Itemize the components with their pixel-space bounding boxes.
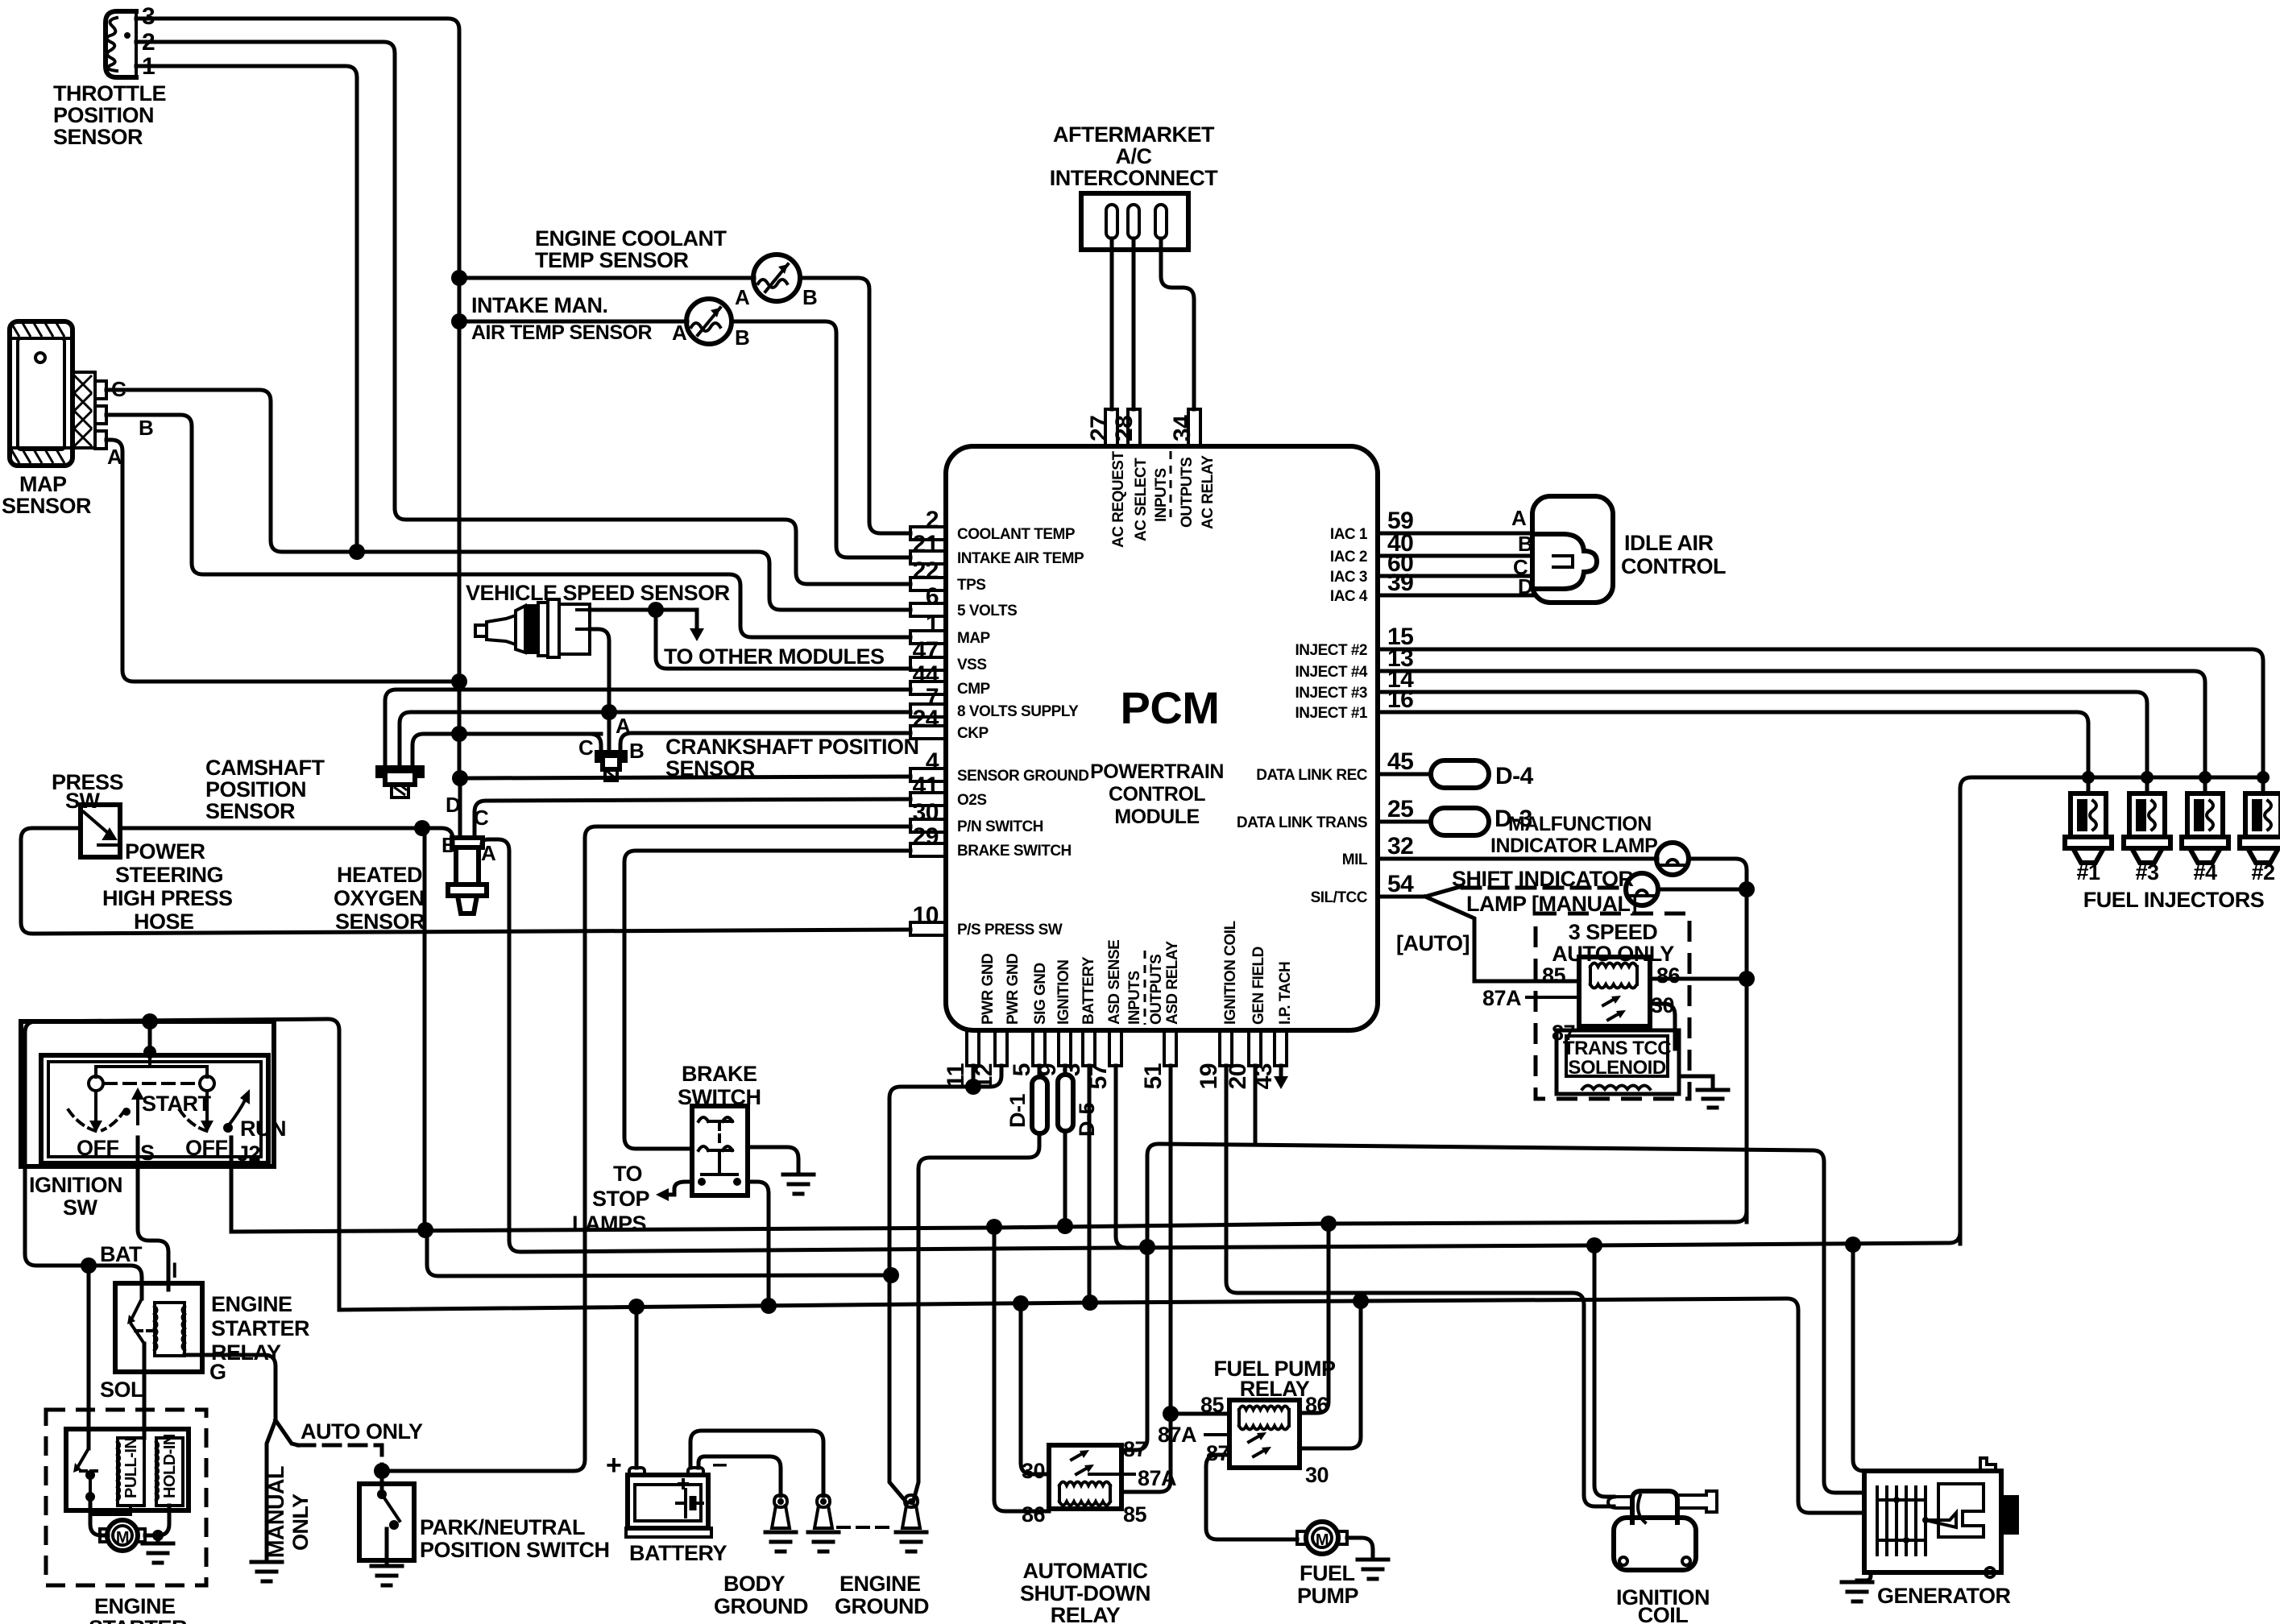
node ASD out to ignition coil xyxy=(1586,1237,1602,1253)
wire relay G to auto/manual fork xyxy=(184,1355,276,1562)
svg-text:GROUND: GROUND xyxy=(835,1594,929,1618)
wire TPS pin2 down xyxy=(136,42,910,584)
pull-in coil xyxy=(118,1438,144,1506)
node starter ground xyxy=(152,1530,164,1541)
wire brake switch to ground xyxy=(748,1147,798,1174)
svg-text:OFF: OFF xyxy=(185,1136,228,1160)
dashed link between engine grounds xyxy=(838,1526,893,1529)
PCM bottom pin 11 stub (PWR GND) xyxy=(967,1030,979,1066)
svg-text:GEN FIELD: GEN FIELD xyxy=(1250,947,1267,1025)
svg-text:S: S xyxy=(140,1141,155,1165)
engine ground bolt (PCM) xyxy=(905,1495,918,1507)
svg-text:87A: 87A xyxy=(1482,986,1521,1010)
crankshaft position sensor icon xyxy=(597,752,625,769)
svg-text:TO: TO xyxy=(613,1162,642,1186)
engine starter relay box xyxy=(115,1283,202,1372)
svg-text:IGNITION: IGNITION xyxy=(1055,960,1072,1025)
wire TPS pin3 to sensor-ground vertical xyxy=(136,19,459,278)
press switch box xyxy=(81,805,120,857)
PCM left pin 10 stub (P/S PRESS SW) xyxy=(910,922,946,935)
MAP sensor body xyxy=(10,321,73,466)
node pwr gnd join xyxy=(965,1079,981,1095)
fuel injector #2 xyxy=(2257,771,2270,784)
node RUN pin 9 xyxy=(1057,1218,1073,1234)
wire relay arm to pull-in coil xyxy=(143,1344,147,1438)
svg-text:–: – xyxy=(712,1448,727,1479)
PCM left pin 1 stub (MAP) xyxy=(910,631,946,644)
svg-text:POWERTRAIN: POWERTRAIN xyxy=(1090,760,1224,783)
MAP terminal A stub xyxy=(95,431,106,449)
ASD relay contact xyxy=(1072,1453,1088,1474)
wire TPS pin1 down xyxy=(136,66,357,552)
svg-text:INTAKE MAN.: INTAKE MAN. xyxy=(471,293,608,317)
svg-text:MAP: MAP xyxy=(957,630,991,647)
wire PCM 13 to injector #4 xyxy=(1378,671,2205,777)
svg-text:A: A xyxy=(672,321,687,345)
svg-text:#2: #2 xyxy=(2251,860,2274,884)
svg-text:PWR GND: PWR GND xyxy=(980,954,997,1025)
svg-text:OXYGEN: OXYGEN xyxy=(334,886,425,910)
ground park/neutral xyxy=(371,1566,402,1585)
svg-text:FUEL: FUEL xyxy=(1300,1561,1355,1585)
wire IAT B to PCM pin 21 xyxy=(732,321,910,557)
wire HO2S A heater to ASD output line xyxy=(482,839,1116,1252)
wire ASD relay pin 51 to relay coils xyxy=(1121,1066,1171,1492)
wire CMP ground to sensor ground xyxy=(412,734,601,768)
svg-text:INJECT #3: INJECT #3 xyxy=(1295,685,1367,702)
svg-text:87A: 87A xyxy=(1158,1423,1196,1447)
wire MAP A to sensor ground xyxy=(106,440,460,681)
PCM left pin 30 stub (P/N SWITCH) xyxy=(910,819,946,832)
trans TCC solenoid xyxy=(1557,1030,1679,1094)
wire run feed vertical to ignition J2 xyxy=(423,828,427,1228)
wire CKP C to sensor ground xyxy=(590,734,601,752)
MAP terminal C stub xyxy=(95,381,106,399)
svg-text:11: 11 xyxy=(943,1063,969,1088)
generator internals diode bars xyxy=(1877,1487,1926,1555)
left OFF arrow xyxy=(94,1091,97,1121)
svg-text:SIL/TCC: SIL/TCC xyxy=(1311,889,1368,906)
FP relay contact xyxy=(1249,1435,1265,1456)
wire sensor ground to ECT sensor A xyxy=(459,276,754,280)
svg-text:AC REQUEST: AC REQUEST xyxy=(1110,451,1127,548)
svg-text:HIGH PRESS: HIGH PRESS xyxy=(102,886,233,910)
ground generator xyxy=(1842,1582,1872,1601)
wire CMP to PCM pin 7 (8 volts supply) xyxy=(400,712,910,768)
svg-text:28: 28 xyxy=(1111,416,1138,441)
wire ASD sense pin 57 to ASD output xyxy=(1116,1066,1127,1248)
svg-text:51: 51 xyxy=(1140,1063,1167,1089)
wire 86 to lamp feed xyxy=(1650,977,1747,981)
svg-text:CKP: CKP xyxy=(957,725,989,742)
data link D-4 connector pill xyxy=(1378,773,1431,777)
svg-text:OFF: OFF xyxy=(77,1136,119,1160)
svg-text:OUTPUTS: OUTPUTS xyxy=(1179,458,1196,528)
svg-text:ASD RELAY: ASD RELAY xyxy=(1164,941,1181,1025)
generator internal regulator shape xyxy=(1938,1484,1984,1537)
PCM bottom pin 20 stub (GEN FIELD) xyxy=(1249,1030,1261,1066)
ground fuel pump xyxy=(1358,1560,1388,1579)
node ignition switch feed xyxy=(142,1013,158,1029)
wire PCM 40 to IAC B xyxy=(1378,554,1532,558)
wire RUN/ignition line from J2 xyxy=(231,1211,1747,1232)
svg-text:BATTERY: BATTERY xyxy=(629,1541,727,1565)
svg-text:TEMP SENSOR: TEMP SENSOR xyxy=(535,248,689,272)
ground TCC solenoid xyxy=(1698,1090,1728,1108)
PCM left pin 7 stub (8 VOLTS SUPPLY) xyxy=(910,704,946,717)
park/neutral switch blade xyxy=(380,1471,384,1492)
svg-text:INJECT #2: INJECT #2 xyxy=(1295,642,1367,659)
svg-text:5: 5 xyxy=(1009,1063,1035,1076)
wire battery plus up to bus xyxy=(635,1305,639,1468)
node RUN to fuel pump relay 86 xyxy=(1320,1216,1337,1232)
diagnostic connector D-1 xyxy=(1038,1066,1042,1077)
wire shift lamp to feed vertical xyxy=(1658,888,1747,892)
brake switch upper contacts xyxy=(699,1117,732,1121)
wire sensor ground to PCM pin 4 xyxy=(459,777,910,778)
wire brake switch to battery bus xyxy=(748,1182,769,1306)
wire MAP C joins TPS1 then to PCM pin 6 (5 volts) xyxy=(106,390,910,610)
svg-text:10: 10 xyxy=(913,902,939,929)
wire injector supply bus from ASD output xyxy=(1960,777,2263,1244)
svg-text:BATTERY: BATTERY xyxy=(1080,956,1097,1025)
PCM left pin 6 stub (5 VOLTS) xyxy=(910,603,946,616)
svg-text:STARTER: STARTER xyxy=(89,1616,187,1624)
svg-text:AUTO ONLY: AUTO ONLY xyxy=(301,1419,423,1444)
svg-text:INPUTS: INPUTS xyxy=(1126,971,1143,1025)
svg-text:COIL: COIL xyxy=(1638,1603,1689,1624)
svg-text:27: 27 xyxy=(1086,416,1113,441)
svg-text:47: 47 xyxy=(913,637,939,664)
wire A/C pin to PCM 34 xyxy=(1161,238,1194,409)
wire HO2S C to PCM pin 41 (O2S) xyxy=(475,799,910,838)
svg-text:41: 41 xyxy=(913,773,939,799)
node inner feed xyxy=(143,1046,156,1058)
svg-text:CONTROL: CONTROL xyxy=(1621,554,1726,578)
wire PCM 32 to MIL lamp xyxy=(1378,857,1657,861)
svg-text:GROUND: GROUND xyxy=(714,1594,808,1618)
engine ground bolt (battery) xyxy=(817,1495,830,1507)
wire PCM pin 29 to brake switch xyxy=(624,851,910,1149)
ignition sw contact left xyxy=(89,1076,103,1091)
svg-text:SW: SW xyxy=(65,789,101,813)
svg-text:INJECT #1: INJECT #1 xyxy=(1295,705,1368,722)
wire PCM 39 to IAC D xyxy=(1378,594,1532,598)
svg-text:OUTPUTS: OUTPUTS xyxy=(1148,955,1165,1025)
dashed wire shift indicator lamp (manual) xyxy=(1462,886,1626,890)
PCM top pin 34 stub (AC RELAY) xyxy=(1188,409,1200,446)
svg-text:30: 30 xyxy=(1022,1459,1045,1483)
svg-text:POSITION: POSITION xyxy=(53,103,154,127)
wire RUN to FP relay 86 xyxy=(1300,1224,1329,1413)
svg-text:19: 19 xyxy=(1196,1063,1222,1089)
svg-text:VSS: VSS xyxy=(957,657,987,673)
svg-text:M: M xyxy=(116,1529,129,1547)
svg-text:SOLENOID: SOLENOID xyxy=(1568,1057,1666,1079)
svg-text:STARTER: STARTER xyxy=(211,1316,309,1340)
svg-text:O2S: O2S xyxy=(957,792,987,809)
PCM bottom pin 12 stub (PWR GND) xyxy=(995,1030,1007,1066)
svg-text:INDICATOR LAMP: INDICATOR LAMP xyxy=(1490,835,1657,857)
svg-text:32: 32 xyxy=(1387,833,1413,860)
svg-text:6: 6 xyxy=(926,583,939,610)
PCM left pin 4 stub (SENSOR GROUND) xyxy=(910,768,946,781)
svg-text:SENSOR: SENSOR xyxy=(2,494,91,518)
wire to other modules arrow xyxy=(656,610,697,630)
svg-text:34: 34 xyxy=(1169,415,1196,441)
wire fuel pump to ground xyxy=(1347,1538,1373,1560)
shift indicator lamp xyxy=(1626,873,1658,905)
ignition sw contact right xyxy=(200,1076,214,1091)
wire CKP B to PCM pin 24 xyxy=(620,733,910,752)
svg-text:P/N SWITCH: P/N SWITCH xyxy=(957,818,1043,835)
svg-text:STOP: STOP xyxy=(592,1187,650,1211)
dashed link between contacts xyxy=(105,1082,198,1085)
wire J2 to RUN line xyxy=(230,1137,234,1228)
wire PCM 54 fork xyxy=(1378,886,1462,897)
svg-text:AUTO ONLY: AUTO ONLY xyxy=(1552,942,1674,966)
svg-text:+: + xyxy=(606,1450,621,1481)
svg-text:ENGINE: ENGINE xyxy=(94,1594,176,1618)
svg-text:START: START xyxy=(142,1092,211,1116)
svg-text:ENGINE COOLANT: ENGINE COOLANT xyxy=(535,226,728,251)
PCM left pin 41 stub (O2S) xyxy=(910,793,946,806)
park/neutral switch box xyxy=(359,1484,414,1560)
node MAP C / TPS1 junction xyxy=(349,544,365,560)
PCM bottom pin 5 stub (SIG GND) xyxy=(1033,1030,1045,1066)
svg-text:45: 45 xyxy=(1387,748,1413,775)
svg-text:PARK/NEUTRAL: PARK/NEUTRAL xyxy=(420,1515,585,1539)
svg-text:22: 22 xyxy=(913,557,939,584)
wire TCC solenoid to ground xyxy=(1679,1076,1713,1090)
svg-text:PUMP: PUMP xyxy=(1297,1584,1358,1608)
svg-text:HOSE: HOSE xyxy=(134,909,194,934)
wire ignition feed to ignition sw BAT xyxy=(25,1019,339,1310)
wire press sw loop to PCM pin 10 xyxy=(120,826,422,831)
wire BAT down to engine starter xyxy=(87,1266,91,1448)
node 86 feed junction xyxy=(1739,971,1755,987)
wire PCM 16 to injector #1 xyxy=(1378,712,2088,777)
svg-text:85: 85 xyxy=(1200,1393,1225,1417)
wire PCM pwr gnd pins 11+12 to engine ground xyxy=(889,1066,1001,1503)
node sensor ground pin4 junction xyxy=(452,770,468,786)
svg-text:INPUTS: INPUTS xyxy=(1153,468,1170,522)
wire VSS low terminal to CKP A via 8v line xyxy=(590,629,609,752)
starter relay arm xyxy=(131,1299,144,1344)
svg-text:BRAKE: BRAKE xyxy=(682,1062,757,1086)
svg-text:CMP: CMP xyxy=(957,681,991,698)
PCM left pin 47 stub (VSS) xyxy=(910,657,946,670)
svg-text:87: 87 xyxy=(1123,1437,1146,1461)
svg-text:HOLD-IN: HOLD-IN xyxy=(161,1434,179,1498)
PCM bottom pin 19 stub (IGNITION COIL) xyxy=(1220,1030,1232,1066)
wire ASD out down to generator xyxy=(1853,1245,1864,1471)
wire pin 19 to ignition coil negative xyxy=(1226,1066,1614,1506)
svg-text:IGNITION COIL: IGNITION COIL xyxy=(1222,921,1239,1025)
wire 30 down to solenoid xyxy=(1650,1004,1675,1049)
malfunction indicator lamp xyxy=(1656,843,1689,875)
svg-text:1: 1 xyxy=(926,611,939,637)
svg-text:4: 4 xyxy=(926,748,939,775)
idle air control connector xyxy=(1532,496,1613,603)
svg-text:SOL: SOL xyxy=(100,1377,143,1402)
svg-text:85: 85 xyxy=(1542,963,1566,988)
wire battery minus to engine ground xyxy=(690,1431,823,1496)
PCM bottom pin 43 stub (I.P. TACH) xyxy=(1275,1030,1287,1066)
PCM bottom pin 57 stub (ASD SENSE) xyxy=(1109,1030,1121,1066)
svg-text:MODULE: MODULE xyxy=(1114,806,1199,828)
wire sig gnd to engine ground xyxy=(913,1133,1039,1503)
svg-text:CONTROL: CONTROL xyxy=(1109,783,1205,806)
wire S to starter relay I xyxy=(138,1137,168,1290)
svg-text:39: 39 xyxy=(1387,570,1413,596)
svg-text:VEHICLE SPEED SENSOR: VEHICLE SPEED SENSOR xyxy=(466,581,730,605)
svg-text:BRAKE SWITCH: BRAKE SWITCH xyxy=(957,843,1072,860)
PCM bottom pin 51 stub (ASD RELAY) xyxy=(1164,1030,1176,1066)
svg-text:21: 21 xyxy=(913,531,939,557)
node ECT ground junction xyxy=(451,270,467,286)
svg-text:5 VOLTS: 5 VOLTS xyxy=(957,603,1017,619)
svg-text:FUEL INJECTORS: FUEL INJECTORS xyxy=(2083,888,2265,912)
wire PCM pin 30 to park/neutral switch xyxy=(382,826,910,1471)
start arrow xyxy=(136,1097,139,1124)
svg-text:PCM: PCM xyxy=(1121,682,1220,733)
svg-text:J2: J2 xyxy=(237,1141,260,1166)
svg-text:B: B xyxy=(735,325,749,350)
wire A/C pin to PCM 27 xyxy=(1110,238,1114,409)
starter relay coil xyxy=(155,1303,184,1356)
svg-text:A/C: A/C xyxy=(1116,144,1152,168)
svg-text:#1: #1 xyxy=(2076,860,2100,884)
svg-text:A: A xyxy=(1511,506,1527,530)
wire HO2S D sensor ground xyxy=(458,778,462,838)
FP relay coil xyxy=(1239,1410,1289,1426)
body ground bolt xyxy=(774,1495,787,1507)
camshaft position sensor icon xyxy=(378,768,422,785)
wire VSS signal to PCM pin 47 xyxy=(656,610,910,669)
automatic shut-down relay box xyxy=(1049,1445,1121,1509)
wire contact to motor xyxy=(90,1497,108,1535)
svg-text:AC SELECT: AC SELECT xyxy=(1133,458,1150,541)
svg-text:A: A xyxy=(107,445,122,469)
wire sensor ground to IAT sensor A xyxy=(459,320,687,324)
svg-text:PWR GND: PWR GND xyxy=(1005,954,1022,1025)
PCM bottom pin 3 stub (BATTERY) xyxy=(1083,1030,1095,1066)
svg-text:25: 25 xyxy=(1387,796,1413,822)
generator body xyxy=(1864,1471,2001,1572)
PCM left pin 29 stub (BRAKE SWITCH) xyxy=(910,843,946,856)
MAP sensor connector hatch xyxy=(73,372,95,448)
svg-text:IAC 4: IAC 4 xyxy=(1330,588,1368,605)
PCM powertrain control module U1 xyxy=(946,446,1378,1030)
wire ASD output line pin57 segment xyxy=(1116,1232,1960,1248)
node VSS signal junction xyxy=(648,602,664,618)
node RUN to ASD 86 xyxy=(986,1219,1002,1235)
wire gen field line (pin 20 / ASD riser) xyxy=(1147,1144,1863,1493)
svg-text:D-5: D-5 xyxy=(1075,1103,1099,1137)
svg-text:SW: SW xyxy=(63,1195,98,1220)
vehicle speed sensor icon xyxy=(475,625,487,636)
svg-text:AUTOMATIC: AUTOMATIC xyxy=(1023,1559,1148,1583)
svg-text:#4: #4 xyxy=(2193,860,2217,884)
wire pin 43 IP tach arrow xyxy=(1279,1066,1283,1078)
fuel pump relay box xyxy=(1229,1400,1300,1468)
svg-text:MANUAL: MANUAL xyxy=(264,1466,288,1558)
ground engine starter xyxy=(143,1543,173,1563)
wire PCM 15 to injector #2 xyxy=(1378,649,2263,777)
wire MAP B to PCM pin 1 (MAP) xyxy=(106,415,910,637)
node pin 51 to FP relay 85 xyxy=(1163,1406,1179,1422)
wire battery plus bus xyxy=(339,1299,1863,1513)
wire CMP to PCM pin 44 xyxy=(385,690,910,768)
PCM top pin 28 stub (AC SELECT) xyxy=(1128,409,1140,446)
starter motor xyxy=(107,1520,138,1551)
svg-text:PULL-IN: PULL-IN xyxy=(122,1438,140,1498)
generator pulley xyxy=(2001,1495,2019,1535)
svg-text:RELAY: RELAY xyxy=(1051,1603,1121,1624)
svg-text:SHUT-DOWN: SHUT-DOWN xyxy=(1020,1581,1150,1605)
fuel pump motor xyxy=(1306,1522,1338,1554)
svg-text:POWER: POWER xyxy=(125,839,205,864)
svg-text:SENSOR: SENSOR xyxy=(205,799,295,823)
ignition coil hi-tension tower xyxy=(1677,1491,1717,1512)
node battery plus xyxy=(628,1299,645,1315)
svg-text:IGNITION: IGNITION xyxy=(29,1173,122,1197)
wire PCM 60 to IAC C xyxy=(1378,574,1532,578)
wire pin 20 gen field to field line xyxy=(1254,1066,1258,1145)
svg-text:INTERCONNECT: INTERCONNECT xyxy=(1050,166,1219,190)
wire battery minus to body ground xyxy=(699,1456,781,1496)
wire motor to ground xyxy=(145,1535,158,1543)
wire battery to FP relay 30 xyxy=(1300,1301,1361,1448)
starter switch arm xyxy=(77,1448,90,1497)
svg-text:86: 86 xyxy=(1022,1502,1046,1527)
wire ASD out to ignition coil positive xyxy=(1594,1245,1614,1497)
svg-text:ENGINE: ENGINE xyxy=(211,1292,292,1316)
wire RUN riser lower link to pwr-gnd vertical xyxy=(427,1230,893,1276)
svg-text:AC RELAY: AC RELAY xyxy=(1200,455,1217,529)
ignition coil left terminal xyxy=(1608,1497,1632,1508)
svg-text:INJECT #4: INJECT #4 xyxy=(1295,664,1368,681)
node brake switch feed xyxy=(761,1298,777,1314)
wire sensor ground vertical xyxy=(458,278,462,778)
svg-text:29: 29 xyxy=(913,823,939,850)
svg-text:P/S PRESS SW: P/S PRESS SW xyxy=(957,922,1063,938)
ignition coil body xyxy=(1614,1518,1696,1570)
ignition switch outer box xyxy=(21,1021,274,1166)
svg-text:TO OTHER MODULES: TO OTHER MODULES xyxy=(664,644,885,669)
ground brake switch xyxy=(783,1174,814,1194)
svg-text:HEATED: HEATED xyxy=(337,863,422,887)
ignition switch inner double box xyxy=(41,1055,268,1163)
wire pull-in bottom link xyxy=(90,1506,131,1514)
svg-text:IAC 3: IAC 3 xyxy=(1330,569,1367,586)
wire ASD out to ASD relay 87 xyxy=(1121,1247,1147,1450)
svg-text:AIR TEMP SENSOR: AIR TEMP SENSOR xyxy=(471,321,652,344)
svg-text:MALFUNCTION: MALFUNCTION xyxy=(1508,813,1652,835)
svg-text:CRANKSHAFT POSITION: CRANKSHAFT POSITION xyxy=(665,735,919,759)
3 speed relay contact xyxy=(1603,999,1619,1020)
engine coolant temp sensor (thermistor) xyxy=(753,255,800,301)
data link D-3 connector pill xyxy=(1378,820,1431,824)
svg-text:86: 86 xyxy=(1656,963,1681,988)
throttle position sensor connector xyxy=(106,11,136,77)
svg-text:ASD SENSE: ASD SENSE xyxy=(1106,940,1123,1025)
svg-text:GENERATOR: GENERATOR xyxy=(1877,1584,2011,1608)
svg-text:87A: 87A xyxy=(1138,1466,1176,1490)
right OFF arrow xyxy=(205,1091,209,1121)
svg-text:54: 54 xyxy=(1387,871,1414,897)
